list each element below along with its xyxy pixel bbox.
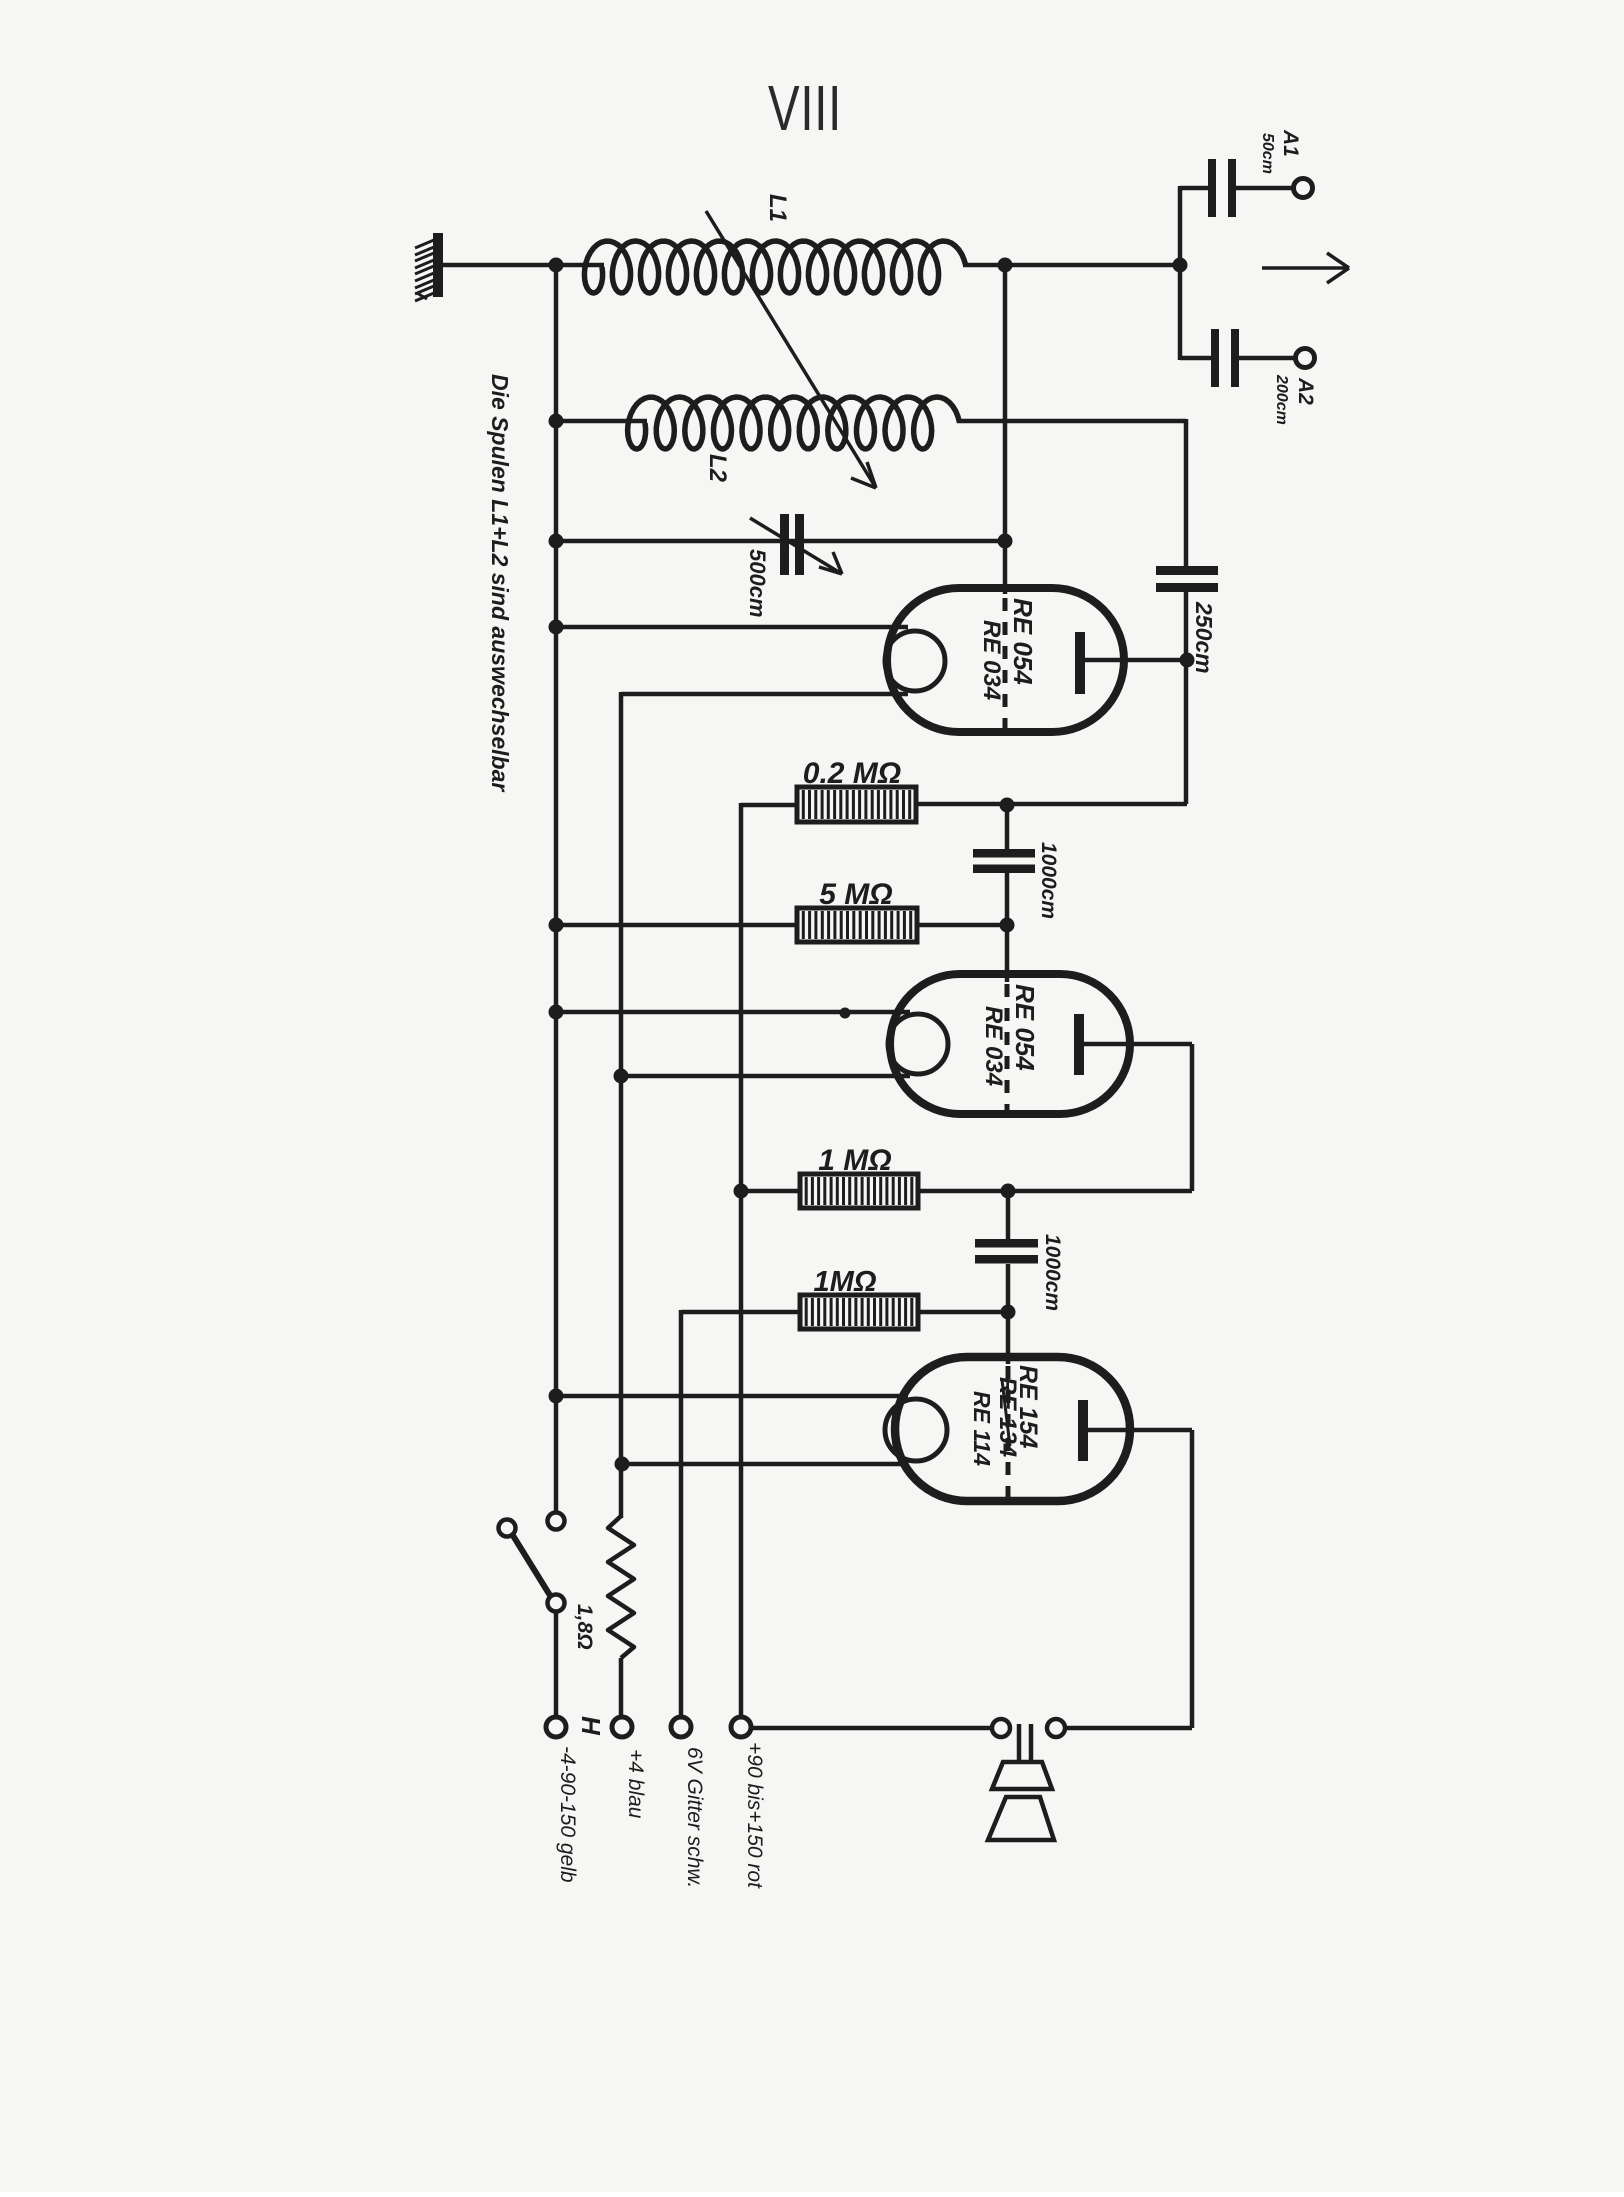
wire A1 cap to terminal (1236, 186, 1294, 191)
wire A-caps vertical (1178, 186, 1183, 360)
speaker terminal right (1047, 1719, 1065, 1737)
svg-text:A2: A2 (1294, 377, 1317, 405)
ground (earth electrode) (415, 233, 443, 301)
node bus A / antenna / L1 (549, 258, 564, 273)
wire bus D vertical (739, 803, 744, 1717)
wire 0.2M left lead (741, 803, 797, 808)
wire L2 to 250cm cap (957, 419, 1186, 424)
arrow variable coupling (706, 211, 876, 488)
node V1 anode / 250cm (1180, 653, 1195, 668)
arrow output (1262, 253, 1349, 283)
node bus B / V2 filament (614, 1069, 629, 1084)
node V2 filament line blob (840, 1008, 851, 1019)
switch pivot (548, 1595, 565, 1612)
wire 1M-1 right lead (918, 1189, 1192, 1194)
tube V1 envelope (887, 588, 1124, 732)
wire L2 lead-in (557, 419, 647, 424)
wire 1000cm cap #2 vertical (1006, 1191, 1011, 1243)
svg-text:1MΩ: 1MΩ (814, 1266, 877, 1298)
filament loop V2 (888, 1014, 948, 1074)
wire to capacitor A1 (1180, 186, 1208, 191)
svg-text:1000cm: 1000cm (1041, 1234, 1064, 1311)
wire V2 filament bottom (621, 1074, 910, 1079)
wire 500cm row (558, 539, 1005, 544)
svg-text:0.2 MΩ: 0.2 MΩ (803, 757, 901, 790)
grid electrode V1 (dashed) (1003, 598, 1008, 728)
capacitor A1 50cm (1208, 159, 1216, 217)
capacitor 250cm (1156, 566, 1218, 575)
wire 1.8 Ohm to terminal (619, 1658, 624, 1717)
resistor 0.2 MOhm (797, 787, 916, 822)
node bus B / V3 filament (615, 1457, 630, 1472)
svg-text:RE 054: RE 054 (1010, 984, 1040, 1071)
wire L1 lead-in (557, 263, 604, 268)
wire switch to terminal (554, 1611, 559, 1717)
node 1M-1 / 1000cm #2 (1001, 1184, 1016, 1199)
svg-text:50cm: 50cm (1259, 133, 1276, 174)
node bus A / L2 (549, 414, 564, 429)
svg-text:RE 054: RE 054 (1008, 598, 1038, 685)
svg-text:+90 bis+150 rot: +90 bis+150 rot (743, 1742, 766, 1889)
node bus A / 5M (549, 918, 564, 933)
svg-text:RE 034: RE 034 (980, 1006, 1007, 1086)
node L1 / grid tap (998, 258, 1013, 273)
terminal -4-90-150 gelb (546, 1717, 566, 1737)
resistor 1 MOhm #1 (800, 1174, 918, 1208)
speaker leads (1017, 1724, 1022, 1762)
capacitor A2 200cm (1211, 329, 1219, 387)
wire bus B vertical (619, 692, 624, 1518)
node bus D / 1M-1 (734, 1184, 749, 1199)
filament loop V1 (885, 631, 945, 691)
svg-text:1 MΩ: 1 MΩ (818, 1144, 891, 1177)
tube V2 envelope (890, 974, 1130, 1114)
terminal A1 (1294, 179, 1313, 198)
svg-text:+4 blau: +4 blau (624, 1749, 647, 1819)
wire 250cm cap down (1184, 592, 1189, 804)
switch contact top (548, 1513, 565, 1530)
svg-text:250cm: 250cm (1191, 601, 1217, 674)
terminal +4 blau (612, 1717, 632, 1737)
loudspeaker horn (992, 1762, 1052, 1789)
anode V2 (1074, 1014, 1084, 1075)
wire +150 terminal to speaker (751, 1726, 992, 1731)
wire V1 anode (1085, 658, 1189, 663)
wire anode row to 0.2M (916, 802, 1187, 807)
node bus A / V3 filament (549, 1389, 564, 1404)
terminal 6V Gitter schw (671, 1717, 691, 1737)
wire to capacitor A2 (1180, 356, 1211, 361)
svg-text:5 MΩ: 5 MΩ (819, 878, 892, 911)
svg-text:L1: L1 (764, 194, 791, 222)
inductor L2 (628, 397, 960, 449)
tube V3 envelope (895, 1357, 1130, 1501)
wire V2 anode (1084, 1042, 1192, 1047)
node bus A / V2 filament (549, 1005, 564, 1020)
wire L1 to A-caps (963, 263, 1180, 268)
terminal +90 bis +150 rot (731, 1717, 751, 1737)
wire A2 cap to terminal (1239, 356, 1296, 361)
wire speaker to V3 anode riser (1065, 1726, 1192, 1731)
wire grid drop to V3 (1006, 1312, 1011, 1364)
node L1 / antenna caps (1173, 258, 1188, 273)
svg-text:A1: A1 (1279, 129, 1302, 157)
wire V3 filament top (558, 1394, 908, 1399)
grid electrode V3 (dashed) (1006, 1366, 1011, 1497)
svg-text:RE 114: RE 114 (969, 1391, 995, 1466)
svg-text:200cm: 200cm (1273, 374, 1290, 425)
capacitor 1000cm #1 (973, 849, 1035, 858)
wire grid drop to V2 (1005, 925, 1010, 982)
node 5M / grid V2 (1000, 918, 1015, 933)
svg-text:VIII: VIII (768, 72, 842, 144)
wire V1 filament bottom (621, 692, 908, 697)
resistor 1.8 Ohm zigzag (608, 1516, 634, 1658)
svg-text:1000cm: 1000cm (1037, 842, 1060, 919)
filament loop V3 (885, 1399, 947, 1461)
wire bus C vertical (679, 1310, 684, 1717)
speaker terminal left (992, 1719, 1010, 1737)
node 500cm / grid line (998, 534, 1013, 549)
capacitor 1000cm #2 (975, 1239, 1038, 1248)
resistor 5 MOhm (797, 908, 917, 942)
wire grid drop to V1 (1003, 263, 1008, 594)
node 1M-2 / grid V3 (1001, 1305, 1016, 1320)
wire bus A vertical (554, 263, 559, 1513)
anode V3 (1078, 1400, 1088, 1461)
switch lever (512, 1534, 551, 1597)
wire V3 filament bottom (622, 1462, 908, 1467)
svg-text:H: H (576, 1716, 606, 1736)
svg-text:-4-90-150 gelb: -4-90-150 gelb (556, 1746, 579, 1883)
wire V2 filament top (558, 1010, 910, 1015)
inductor L1 (584, 241, 965, 293)
wire 1M-2 right lead (918, 1310, 1008, 1315)
svg-text:1,8Ω: 1,8Ω (573, 1604, 596, 1650)
wire 1M-1 left lead (741, 1189, 800, 1194)
svg-text:Die Spulen L1+L2 sind auswechs: Die Spulen L1+L2 sind auswechselbar (487, 374, 513, 792)
wire V1 filament top (558, 625, 908, 630)
terminal A2 (1296, 349, 1315, 368)
wire V3 anode (1088, 1428, 1192, 1433)
node bus A / V1 filament (549, 620, 564, 635)
svg-text:L2: L2 (704, 454, 731, 483)
svg-text:6V Gitter schw.: 6V Gitter schw. (683, 1747, 706, 1888)
anode V1 (1075, 632, 1085, 694)
wire earth to bus A (443, 263, 558, 268)
node 0.2M / 1000cm cap (1000, 798, 1015, 813)
capacitor 500cm variable (780, 514, 789, 575)
resistor 1 MOhm #2 (800, 1295, 918, 1329)
wire 1000cm cap #1 vertical (1005, 805, 1010, 853)
wire 1M-2 left lead (681, 1310, 800, 1315)
svg-text:RE 034: RE 034 (978, 620, 1005, 700)
wire 5M right lead (917, 923, 1007, 928)
svg-text:500cm: 500cm (745, 549, 770, 618)
grid electrode V2 (dashed) (1005, 984, 1010, 1110)
wire 5M left lead (558, 923, 797, 928)
node bus A / 500cm (549, 534, 564, 549)
